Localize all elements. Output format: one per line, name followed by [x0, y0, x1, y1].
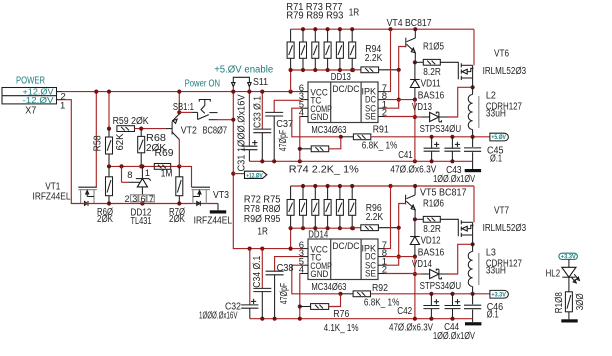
wire bank to VCC 2	[289, 226, 293, 251]
wire COMP feedback row 2	[292, 265, 343, 296]
pin 6 of DD14	[299, 240, 308, 251]
svg-text:33uH: 33uH	[486, 266, 506, 277]
svg-text:1R: 1R	[257, 227, 268, 238]
transistor VT1	[33, 181, 97, 206]
svg-text:2: 2	[125, 194, 130, 204]
capacitor C37	[265, 100, 301, 161]
resistor R80	[324, 186, 331, 228]
resistor R78	[312, 186, 319, 228]
pin 6 of DD13	[299, 83, 308, 94]
ground	[561, 319, 577, 322]
pin 4 of DD14	[299, 265, 308, 276]
svg-text:R58: R58	[92, 135, 103, 151]
svg-text:VT3: VT3	[213, 190, 229, 201]
diode VD14 STPS340U	[412, 259, 461, 292]
svg-text:8.2R: 8.2R	[423, 224, 441, 235]
capacitor C34	[252, 249, 271, 319]
transistor VT6 IRLML5203	[458, 49, 526, 88]
svg-text:C42: C42	[397, 306, 412, 317]
resistor R60	[97, 166, 113, 225]
wire SC/SE column	[413, 100, 417, 162]
svg-text:6: 6	[141, 194, 146, 204]
resistor R69	[154, 148, 174, 179]
inductor L3	[468, 244, 522, 293]
wire analog ground rail upper	[249, 159, 472, 163]
svg-text:L3: L3	[486, 247, 496, 258]
svg-text:S11: S11	[253, 77, 268, 88]
capacitor C44	[433, 294, 475, 342]
wire VT1 gate feed	[94, 90, 98, 188]
svg-text:+5.ØV enable: +5.ØV enable	[214, 64, 273, 75]
svg-text:BAS16: BAS16	[418, 247, 445, 258]
wire DC/SC tie 2	[385, 257, 399, 266]
shunt reference DD12 TL431	[122, 166, 155, 227]
svg-text:R1Ø8: R1Ø8	[554, 292, 565, 313]
svg-text:R79 R89 R93: R79 R89 R93	[286, 11, 343, 22]
wire top rail to VT6	[473, 29, 475, 65]
wire DC/SC tie	[385, 100, 399, 109]
svg-text:C33 Ø.1: C33 Ø.1	[252, 96, 263, 128]
wire VT2 collector to divider row	[178, 140, 180, 167]
svg-text:BC8Ø7: BC8Ø7	[203, 126, 228, 137]
wire divider row	[107, 164, 181, 168]
connector X7	[2, 87, 57, 117]
pin 1 of DD13	[378, 99, 387, 110]
diode VD11 BAS16	[410, 62, 445, 101]
capacitor C45	[464, 137, 504, 165]
svg-text:3ØØ: 3ØØ	[575, 293, 586, 310]
resistor R70	[169, 166, 185, 225]
wire bank bottom rail 2	[291, 226, 356, 230]
pin 5 of DD14	[299, 256, 308, 267]
resistor R96	[353, 203, 399, 231]
pin 5 of DD13	[299, 99, 308, 110]
transistor VT3	[192, 187, 233, 226]
svg-text:R1Ø5: R1Ø5	[423, 41, 444, 52]
capacitor C31	[237, 90, 258, 172]
svg-text:HL2: HL2	[546, 269, 561, 280]
wire +12V long feed to DD14	[231, 90, 301, 251]
op-amp DD14 MC34063 DC/DC controller	[308, 229, 378, 293]
ground	[465, 161, 481, 172]
wire SE to VD14	[385, 273, 415, 275]
svg-text:DD14: DD14	[308, 229, 328, 240]
wire bank top rail	[291, 27, 474, 31]
resistor R76	[300, 294, 359, 334]
svg-text:VD14: VD14	[412, 259, 432, 270]
svg-text:8: 8	[127, 170, 132, 181]
svg-text:1ØØ.Øx1ØV: 1ØØ.Øx1ØV	[433, 174, 475, 185]
transistor VT2	[172, 114, 227, 140]
svg-text:IRFZ44EL: IRFZ44EL	[194, 216, 233, 227]
svg-text:Power ON: Power ON	[185, 79, 221, 90]
resistor R71	[287, 29, 294, 70]
wire output rail +5V	[371, 135, 490, 139]
svg-text:POWER: POWER	[16, 76, 45, 87]
wire COMP feedback row	[292, 108, 343, 139]
wire GND pin column 2	[298, 274, 302, 319]
svg-text:47ØpF: 47ØpF	[279, 283, 290, 305]
resistor R106	[413, 198, 445, 235]
pin 1 of DD14	[378, 256, 387, 267]
svg-text:1ØØØ.Øx16V: 1ØØØ.Øx16V	[199, 310, 238, 321]
resistor R75	[300, 186, 307, 228]
wire R105 to VT6 gate	[440, 62, 458, 64]
svg-text:SE: SE	[365, 112, 376, 123]
svg-text:2ØK: 2ØK	[97, 214, 113, 225]
transistor VT5	[406, 186, 467, 219]
capacitor C41	[390, 137, 439, 176]
wire R106 to VT7 gate	[440, 219, 458, 221]
op-amp DD13 MC34063 DC/DC controller	[308, 72, 378, 136]
wire -12V from pin 1	[62, 100, 78, 204]
svg-text:R92: R92	[372, 283, 388, 294]
svg-text:4.1K_ 1%: 4.1K_ 1%	[324, 323, 359, 334]
svg-text:3: 3	[132, 194, 137, 204]
capacitor C42	[389, 294, 439, 334]
svg-text:X7: X7	[25, 106, 36, 117]
wire bank bottom rail	[291, 68, 356, 72]
svg-text:1R: 1R	[349, 7, 360, 18]
svg-text:+12.ØV: +12.ØV	[246, 172, 263, 179]
wire VT3 gate feed	[179, 166, 191, 187]
svg-text:7: 7	[149, 194, 154, 204]
svg-text:47Ø.Øx6.3V: 47Ø.Øx6.3V	[389, 323, 433, 334]
svg-text:C38: C38	[277, 263, 294, 274]
svg-text:DC/DC: DC/DC	[332, 84, 359, 95]
svg-text:VT2: VT2	[181, 126, 197, 137]
resistor R59	[113, 116, 149, 131]
resistor R90	[336, 186, 343, 228]
svg-text:2.2K: 2.2K	[365, 53, 383, 64]
svg-text:C31 1ØØØ.Øx16V: C31 1ØØØ.Øx16V	[237, 94, 248, 171]
wire bank to VCC	[289, 68, 293, 92]
svg-text:62K: 62K	[115, 133, 126, 150]
wire ground rail lower	[250, 317, 473, 321]
resistor R74	[289, 137, 359, 176]
resistor bank R71 R73 R77 R79 R89 R93 labels	[286, 2, 359, 22]
wire SE to VD13	[385, 116, 415, 118]
capacitor C46	[464, 294, 504, 321]
wire pin8 row to VD11	[385, 98, 418, 102]
svg-text:R59 2ØK: R59 2ØK	[113, 116, 149, 127]
svg-text:R74 2.2K_ 1%: R74 2.2K_ 1%	[289, 165, 359, 176]
power flag +12.0V	[233, 171, 266, 179]
resistor R73	[300, 29, 307, 70]
svg-text:R91: R91	[373, 125, 389, 136]
resistor R95	[349, 186, 356, 228]
svg-text:VD12: VD12	[421, 235, 441, 246]
capacitor C43	[433, 137, 475, 185]
svg-text:IRFZ44EL: IRFZ44EL	[33, 191, 71, 202]
pin 7 of DD14	[378, 240, 387, 251]
svg-text:VT7: VT7	[494, 206, 509, 217]
svg-text:+3.3V: +3.3V	[491, 291, 506, 298]
wire IPK to top rail	[385, 29, 391, 91]
resistor R89	[336, 29, 343, 70]
svg-text:47Ø.Øx6.3V: 47Ø.Øx6.3V	[390, 165, 436, 176]
wire R58/R59 feed from +12V	[107, 90, 111, 131]
svg-text:1ØØ.Øx1ØV: 1ØØ.Øx1ØV	[433, 331, 475, 342]
svg-text:R69: R69	[155, 148, 174, 159]
wire common rail lower-left	[78, 201, 218, 205]
svg-text:R1Ø6: R1Ø6	[423, 198, 444, 209]
resistor R105	[413, 41, 445, 78]
LED HL2	[546, 260, 580, 284]
pin 8 of DD13	[378, 91, 387, 102]
pin 3 of DD13	[299, 91, 308, 102]
svg-text:2ØK: 2ØK	[169, 214, 185, 225]
diode VD13 STPS340U	[412, 102, 461, 135]
svg-text:GND: GND	[310, 112, 328, 123]
diode VD12 BAS16	[410, 219, 445, 258]
wire +12V rail	[62, 91, 301, 93]
ground	[210, 204, 226, 214]
resistor R58	[92, 129, 126, 167]
wire bank top rail 2	[291, 184, 474, 188]
svg-text:VT4 BC817: VT4 BC817	[387, 18, 432, 29]
pin 3 of DD14	[299, 248, 308, 259]
svg-text:VD13: VD13	[412, 102, 432, 113]
svg-text:2.2K: 2.2K	[366, 212, 384, 223]
wire IPK to rail 2	[385, 186, 391, 249]
capacitor C33	[252, 90, 271, 162]
transistor VT4	[387, 18, 432, 62]
wire pin8 row to VD12	[385, 255, 418, 259]
pushbutton SB1:1	[173, 100, 233, 120]
inductor L2	[468, 87, 522, 136]
pin 4 of DD13	[299, 108, 308, 119]
power flag +3.3V (LED feed)	[559, 253, 578, 260]
svg-text:SB1:1: SB1:1	[173, 102, 194, 113]
capacitor C38	[266, 257, 301, 319]
svg-text:Ø.1: Ø.1	[490, 153, 502, 164]
svg-text:DD13: DD13	[331, 72, 351, 83]
power flag +3.3V	[490, 290, 508, 298]
wire SC/SE column 2	[413, 257, 417, 319]
svg-text:8.2R: 8.2R	[423, 67, 441, 78]
ground	[465, 319, 481, 326]
wire VT5 base to R96/pin8	[397, 204, 406, 259]
pin 2 of X7	[57, 91, 66, 102]
svg-text:STPS34ØU: STPS34ØU	[420, 281, 462, 292]
resistor R92	[341, 283, 400, 308]
resistor R93	[349, 29, 356, 70]
power flag +5.0V	[490, 133, 509, 141]
svg-text:MC34Ø63: MC34Ø63	[311, 125, 346, 136]
resistor R108	[554, 277, 586, 319]
svg-text:BAS16: BAS16	[418, 90, 445, 101]
wire VT4 base to R94/pin8	[397, 47, 406, 102]
pin 8 of DD14	[378, 248, 387, 259]
svg-text:L2: L2	[486, 90, 496, 101]
resistor R91	[341, 125, 398, 152]
svg-text:6.8K_ 1%: 6.8K_ 1%	[362, 140, 398, 151]
svg-text:MC34Ø63: MC34Ø63	[311, 282, 346, 293]
wire output rail +3.3V	[371, 292, 490, 296]
svg-text:VT5 BC817: VT5 BC817	[420, 188, 467, 199]
pin 1 of X7	[57, 100, 66, 112]
wire VD13 to switch node	[448, 85, 475, 117]
resistor bank R72 R75 R78 R80 R90 R95 labels	[244, 195, 281, 238]
svg-text:C41: C41	[398, 150, 413, 161]
pin 2 of DD13	[378, 108, 387, 119]
wire VT2 emitter to rail	[177, 90, 181, 115]
svg-text:1M: 1M	[161, 169, 173, 180]
pin 7 of DD13	[378, 83, 387, 94]
svg-text:TL431: TL431	[131, 216, 152, 227]
resistor R77	[312, 29, 319, 70]
svg-text:1: 1	[60, 100, 65, 111]
svg-text:IRLML52Ø3: IRLML52Ø3	[483, 66, 527, 77]
jumper S11	[232, 77, 269, 92]
svg-text:1: 1	[145, 168, 150, 179]
svg-text:6.8K_ 1%: 6.8K_ 1%	[364, 297, 400, 308]
capacitor C32	[199, 249, 258, 322]
resistor R94	[353, 44, 399, 73]
wire GND pin column	[298, 117, 302, 162]
wire rail to VT7	[473, 186, 475, 222]
svg-text:47ØpF: 47ØpF	[278, 130, 289, 152]
pin 2 of DD14	[378, 265, 387, 276]
resistor R68	[138, 127, 167, 169]
resistor R72	[287, 186, 294, 228]
svg-text:+5.ØV: +5.ØV	[491, 134, 506, 141]
svg-text:DC/DC: DC/DC	[332, 241, 359, 252]
svg-text:GND: GND	[310, 269, 328, 280]
transistor VT7 IRLML5203	[458, 206, 526, 245]
svg-text:-12.ØV: -12.ØV	[23, 95, 54, 105]
svg-text:C34 Ø.1: C34 Ø.1	[252, 255, 263, 287]
svg-text:+3.3V: +3.3V	[561, 254, 577, 261]
svg-text:33uH: 33uH	[486, 109, 506, 120]
svg-text:VT6: VT6	[494, 49, 509, 60]
svg-text:R9Ø R95: R9Ø R95	[244, 214, 281, 225]
wire VD14 to switch node	[448, 242, 475, 274]
svg-text:STPS34ØU: STPS34ØU	[420, 124, 462, 135]
svg-text:SE: SE	[365, 269, 376, 280]
wire R59 to VT2 base	[135, 128, 167, 130]
svg-text:VD11: VD11	[421, 78, 441, 89]
resistor R79	[324, 29, 331, 70]
svg-text:C37: C37	[276, 119, 293, 130]
svg-text:IRLML52Ø3: IRLML52Ø3	[483, 223, 527, 234]
svg-text:Ø.1: Ø.1	[487, 310, 499, 321]
